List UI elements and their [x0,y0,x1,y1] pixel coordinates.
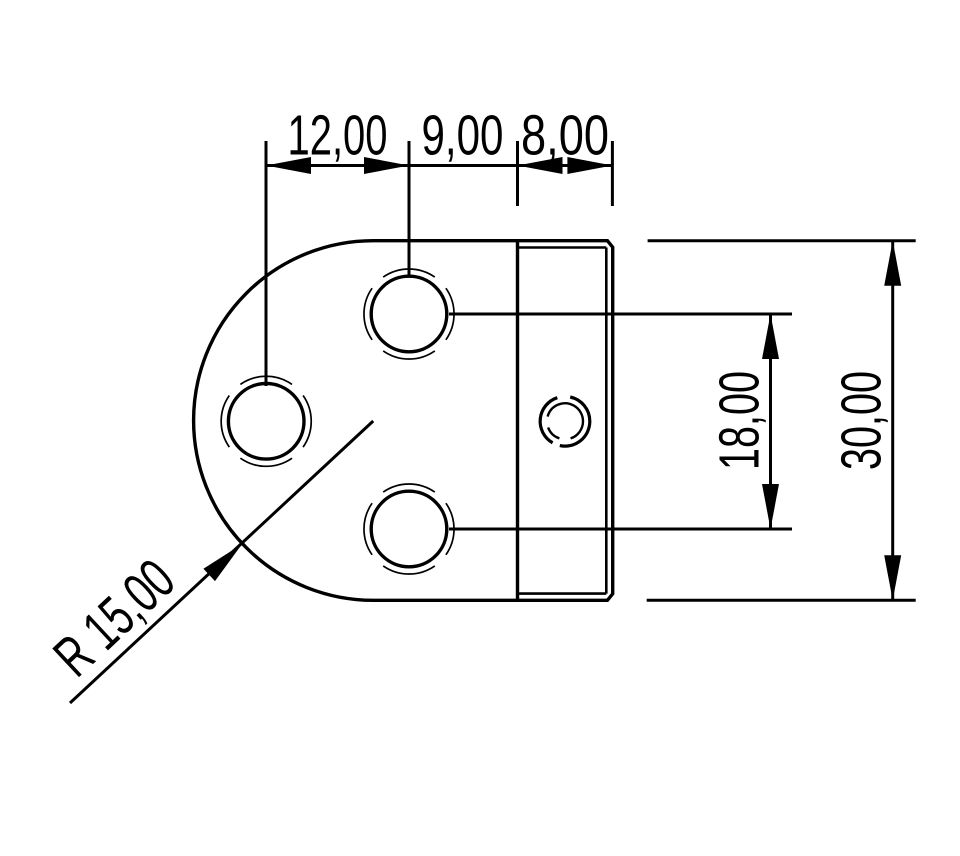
arrow 18,00 down [762,484,779,529]
30,00 dimension line [891,241,894,601]
top hole circle [371,276,447,352]
top hole thread arcs [364,269,454,359]
svg-text:9,00: 9,00 [422,104,504,168]
tab chamfer inner bottom edge [518,592,607,595]
svg-text:18,00: 18,00 [708,371,772,470]
tab chamfer inner right edge [605,248,608,594]
radius leader line R15 [70,421,373,703]
svg-text:30,00: 30,00 [830,371,894,470]
arrow 12,00 right [364,157,409,174]
left hole circle [228,384,304,460]
radius leader arrowhead [203,544,242,581]
svg-text:12,00: 12,00 [288,104,388,168]
bottom hole thread arcs [364,484,454,574]
extension line at tab right edge x=612.4 [611,141,614,206]
extension line at top hole center x=409 [408,141,411,276]
extension line from part top edge [648,239,916,242]
extension line from top hole center [449,313,792,316]
top dimension line [266,164,612,167]
arrow 18,00 up [762,314,779,359]
extension line from part bottom edge [647,599,916,602]
extension line at tab left edge x=517.5 [516,141,519,206]
arrow 30,00 up [884,241,901,286]
tab left edge [516,241,519,601]
arrow 12,00 left [266,157,311,174]
18,00 dimension line [769,314,772,529]
svg-text:8,00: 8,00 [521,104,609,168]
part outline: plate with R15 rounded end [194,241,613,601]
bottom hole circle [371,491,447,567]
arrow 8,00 right [567,157,612,174]
tab chamfer inner top edge [518,246,607,249]
small hole outer thread arc [540,397,590,446]
left hole thread arcs [221,376,311,466]
extension line from bottom hole center [449,528,792,531]
arrow 30,00 down [884,555,901,600]
small hole inner circle [548,403,583,438]
arrow 8,00 left [518,157,563,174]
extension line at left hole center x=266 [265,141,268,386]
